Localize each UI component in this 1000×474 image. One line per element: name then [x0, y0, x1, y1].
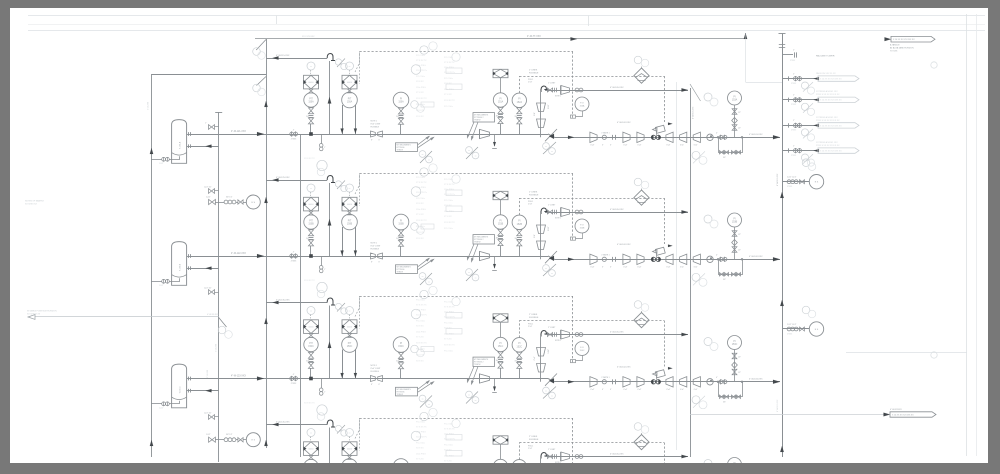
faint right line y=353	[846, 352, 967, 354]
drain wye on main train B	[321, 256, 323, 266]
ghost bubble above gauge train D	[411, 431, 421, 441]
svg-text:PIT: PIT	[348, 343, 352, 345]
svg-text:1-1/2" 1/2": 1-1/2" 1/2"	[204, 187, 212, 189]
header branch at y=99.8	[782, 99, 818, 101]
svg-text:2"-W-XXX: 2"-W-XXX	[207, 369, 209, 378]
header branch at y=78.6	[782, 78, 818, 80]
gauge PI-153D	[728, 458, 742, 472]
svg-text:4"-W-105-XXX: 4"-W-105-XXX	[610, 454, 624, 456]
discharge gauge stack train C	[734, 350, 736, 382]
valve stack C1 train C	[498, 352, 503, 355]
svg-text:xx: xx	[551, 151, 553, 153]
svg-text:150x PSIG: 150x PSIG	[416, 310, 426, 312]
riser isolation valve y=417	[209, 415, 212, 420]
svg-text:1-1/2": 1-1/2"	[548, 349, 550, 354]
seal line valve train D	[547, 455, 550, 459]
transmitter PIT-150BA	[304, 215, 318, 229]
svg-text:TRIM W: TRIM W	[474, 241, 481, 243]
valve stack C1 train A	[498, 107, 503, 110]
strainer box A train C	[304, 320, 319, 334]
vessel T-150A dished head line	[172, 153, 187, 156]
svg-text:TRIM W: TRIM W	[474, 119, 481, 121]
svg-text:PI: PI	[400, 98, 403, 100]
svg-text:XT X.XX: XT X.XX	[416, 214, 424, 216]
signal arrow small train A	[668, 123, 673, 126]
svg-text:2" JOINT: 2" JOINT	[548, 205, 556, 207]
ghost flag branch y=125.4	[803, 129, 813, 139]
seal flush hook train C	[541, 331, 548, 337]
svg-text:2-1/2" 1-1/2": 2-1/2" 1-1/2"	[787, 177, 797, 179]
relief diamond PSV train C	[634, 313, 649, 328]
sample pot circle lower	[246, 433, 260, 447]
svg-text:XT 8 XX TX: XT 8 XX TX	[444, 307, 455, 309]
spectacle blind train C	[290, 377, 294, 381]
svg-text:153C: 153C	[732, 344, 738, 346]
wire minimum-flow feed line train A	[266, 58, 327, 60]
svg-text:4"-W-135-XXX: 4"-W-135-XXX	[276, 300, 290, 302]
svg-text:X 14 XX XX XX XXX XX: X 14 XX XX XX XXX XX	[820, 151, 842, 153]
svg-text:NOTE 1: NOTE 1	[555, 218, 561, 220]
ghost bubble pair beside gauge train D	[411, 467, 419, 474]
wire minimum-flow feed line train D	[266, 424, 327, 426]
top-right off-page connector pill	[891, 36, 935, 42]
svg-text:2-1/2" 1-1/2": 2-1/2" 1-1/2"	[787, 324, 797, 326]
hose hook connector train B	[327, 176, 335, 183]
riser reducer lower train C	[537, 364, 546, 373]
vessel T-150A shell	[172, 120, 187, 164]
ghost bubbles mid column train B	[420, 168, 428, 176]
svg-text:XX 8 XX: XX 8 XX	[416, 361, 424, 363]
transmitter PIT-150AB	[342, 92, 358, 108]
svg-text:NOTE 1: NOTE 1	[555, 340, 561, 342]
svg-text:152C: 152C	[517, 346, 523, 348]
svg-text:4"-W-105-XXX: 4"-W-105-XXX	[610, 209, 624, 211]
ball valve with actuator train C	[651, 380, 655, 384]
ghost flag right of discharge train B	[704, 215, 712, 223]
svg-text:150C: 150C	[308, 346, 314, 348]
valve stack C2 train B	[517, 230, 522, 233]
filter box C train D	[493, 436, 508, 444]
wire main process line train A left span	[191, 134, 548, 136]
flow arrow into header train B	[773, 257, 780, 261]
drain stub below main train C	[494, 379, 496, 391]
riser reducer upper train B	[537, 225, 546, 234]
svg-text:1/2": 1/2"	[738, 112, 741, 114]
svg-text:XX 8 XX TX: XX 8 XX TX	[304, 402, 315, 404]
flow arrow after jog train A	[568, 136, 574, 139]
hose hook connector train C	[327, 298, 335, 305]
svg-text:4"-W-103-XXX: 4"-W-103-XXX	[749, 378, 763, 380]
svg-text:150A: 150A	[347, 101, 353, 104]
ghost flag after jog train B	[543, 264, 556, 276]
sample pot circle upper	[246, 195, 260, 209]
svg-text:PI: PI	[400, 343, 403, 345]
leader arrows note A train C	[418, 381, 429, 389]
inner frame right rule 2	[976, 14, 978, 456]
wire top distribution line y=39	[255, 38, 746, 40]
svg-text:E S: E S	[252, 440, 256, 442]
wire discharge riser x=690	[690, 88, 692, 457]
flow orifice circle F.O. train A	[575, 97, 589, 111]
svg-text:XX-X.XX Px: XX-X.XX Px	[416, 315, 427, 317]
svg-text:150x PSIG: 150x PSIG	[416, 454, 426, 456]
check valve ball train C	[707, 379, 713, 385]
svg-text:xx: xx	[468, 394, 470, 396]
ghost bubbles above diamond train A	[634, 56, 642, 64]
bottom-right connector arrow	[884, 413, 891, 417]
svg-text:1-1/2": 1-1/2"	[206, 197, 211, 199]
svg-text:FLEXIBLE: FLEXIBLE	[529, 72, 539, 74]
svg-text:3/4" 1/2": 3/4" 1/2"	[226, 197, 233, 199]
svg-text:F.O: F.O	[580, 102, 584, 104]
ghost revision cloud train A	[317, 160, 327, 170]
svg-text:2"x1": 2"x1"	[534, 356, 536, 360]
drain wye on main train C	[321, 379, 323, 389]
svg-text:3/4": 3/4"	[496, 116, 499, 118]
ghost flag below discharge train B	[693, 273, 705, 285]
svg-text:1/2": 1/2"	[738, 250, 741, 252]
gauge valve stack train A	[398, 108, 403, 111]
seal line couple circles train D	[575, 455, 579, 459]
svg-text:4"-W-101-XXX: 4"-W-101-XXX	[749, 134, 763, 136]
svg-text:xx: xx	[551, 273, 553, 275]
svg-text:2"x1": 2"x1"	[534, 234, 536, 238]
flow arrow seal line train C	[682, 333, 689, 337]
svg-text:XX 8 XX: XX 8 XX	[416, 116, 424, 118]
bypass loop train C	[719, 382, 743, 397]
svg-text:A TANGLE: A TANGLE	[890, 44, 900, 47]
svg-text:8"x6" JOINT: 8"x6" JOINT	[371, 123, 382, 125]
svg-text:150B: 150B	[308, 224, 314, 226]
diffuser cone on main train B	[480, 251, 490, 260]
seal flush hook train D	[541, 453, 548, 459]
svg-text:PI: PI	[733, 341, 736, 343]
svg-text:PI: PI	[499, 343, 502, 345]
svg-text:xx: xx	[428, 281, 430, 283]
strainer box A train B	[304, 197, 319, 211]
line node A train B	[309, 254, 313, 258]
svg-text:xx: xx	[428, 404, 430, 406]
svg-text:150A: 150A	[308, 101, 314, 104]
wire drain riser x=300	[300, 134, 302, 457]
flow arrow branch y=150.6	[814, 149, 820, 152]
svg-text:TRIM W: TRIM W	[397, 149, 404, 151]
svg-text:PAVILION XXX XL XX: PAVILION XXX XL XX	[816, 72, 836, 75]
svg-text:6"x4": 6"x4"	[694, 267, 698, 269]
transmitter PIT-150AA	[304, 93, 318, 107]
twin drop pipes train C	[342, 350, 344, 379]
ghost flag below main A train B	[420, 273, 432, 285]
flow arrow up feed riser train A	[328, 97, 332, 104]
svg-text:W TANKS POINTS AT HORIZON: W TANKS POINTS AT HORIZON	[27, 310, 57, 313]
transmitter PI-152B	[512, 215, 526, 229]
svg-text:6"x4": 6"x4"	[667, 145, 671, 147]
vessel T-150B lower nozzle branch	[187, 268, 191, 270]
main line slope jog train C	[548, 379, 555, 382]
flow arrow branch y=99.8	[814, 98, 820, 101]
seal line valve train B	[547, 210, 550, 214]
vessel T-150A outlet nozzle flanges	[187, 134, 191, 136]
wire riser from feed hook to main train B	[329, 183, 331, 256]
svg-text:PCL 150x: PCL 150x	[416, 349, 425, 351]
svg-text:1/2": 1/2"	[738, 357, 741, 359]
dashed instrument boundary 1 train B	[360, 173, 574, 175]
flow arrow main line train C	[257, 377, 264, 381]
signal dashed from strainer B train A	[355, 52, 360, 73]
twin drop pipes train A	[342, 105, 344, 134]
wire minimum-flow feed line train B	[266, 180, 327, 182]
wire main process line train C right span	[555, 381, 781, 383]
svg-text:XX 8 XX TX: XX 8 XX TX	[444, 345, 455, 347]
flow arrow into header train C	[773, 380, 780, 384]
svg-text:PCL 150x: PCL 150x	[416, 443, 425, 445]
transmitter PI-151D	[493, 459, 507, 473]
ghost bubbles mid column train D	[420, 412, 428, 420]
reducer chain train C	[590, 377, 597, 387]
leader arrows note A train A	[418, 136, 429, 144]
strainer box B train C	[342, 320, 357, 334]
svg-text:153A: 153A	[732, 99, 738, 102]
svg-text:XXTRESS A NXWL 1XX: XXTRESS A NXWL 1XX	[816, 116, 838, 119]
drain valve at vessel C bottom	[162, 402, 166, 406]
dashed instrument boundary 1 train A	[360, 51, 574, 53]
svg-text:PCL 150x: PCL 150x	[416, 76, 425, 78]
ghost flag right of discharge train C	[704, 338, 712, 346]
svg-text:XX-X.XX: XX-X.XX	[416, 232, 425, 234]
svg-text:1-1/2": 1-1/2"	[548, 226, 550, 231]
svg-text:xx: xx	[310, 310, 312, 312]
discharge flanges train A	[719, 135, 723, 139]
svg-text:xx: xx	[475, 277, 477, 279]
svg-text:1/2": 1/2"	[738, 372, 741, 374]
svg-text:ZTXXX: ZTXXX	[291, 139, 297, 141]
svg-text:150x PSIG: 150x PSIG	[416, 209, 426, 211]
svg-text:X 14 XX XX XX XXX XX: X 14 XX XX XX XXX XX	[892, 415, 914, 417]
header vent tee branch	[782, 54, 793, 56]
flow arrow after jog train B	[568, 258, 574, 261]
svg-text:XX 8 XX TX: XX 8 XX TX	[444, 100, 455, 102]
isolation valve stack A train B	[308, 230, 313, 233]
strainer box A train D	[304, 442, 319, 456]
riser reducer lower train B	[537, 241, 546, 250]
flow arrow on top line	[571, 37, 578, 41]
svg-text:xx: xx	[310, 432, 312, 434]
flow arrow on riser x=266 a	[264, 197, 267, 203]
svg-text:XX 8 XX TX: XX 8 XX TX	[444, 222, 455, 224]
flexible coupling on main train A	[371, 131, 376, 137]
svg-text:XT X.XX: XT X.XX	[444, 216, 452, 218]
svg-text:150B: 150B	[347, 224, 353, 226]
svg-text:PI: PI	[499, 98, 502, 100]
svg-text:XT 8 XX TX: XT 8 XX TX	[416, 182, 427, 184]
bypass loop train A	[719, 137, 743, 152]
svg-text:151C: 151C	[498, 346, 504, 348]
svg-text:3/4" 1/2": 3/4" 1/2"	[226, 434, 233, 436]
flow arrow up on header b	[780, 300, 784, 306]
leader arrows note A train B	[418, 258, 429, 266]
svg-text:6"x4": 6"x4"	[638, 145, 642, 147]
svg-text:X 14 XX XX XX XXX XX: X 14 XX XX XX XXX XX	[893, 39, 915, 41]
seal line valve train C	[547, 333, 550, 337]
wire main collection header x=782	[782, 34, 784, 458]
svg-text:XT 8 XX TX: XT 8 XX TX	[444, 429, 455, 431]
discharge flanges train B	[719, 257, 723, 261]
wire collection riser x=266	[266, 39, 268, 448]
svg-text:4"-W-XXXXX: 4"-W-XXXXX	[890, 409, 902, 411]
off-page connector pill y=125.4	[818, 123, 859, 128]
svg-text:PCL 150x: PCL 150x	[444, 57, 453, 59]
svg-text:XT X.XX: XT X.XX	[444, 94, 452, 96]
note box A train B	[396, 265, 418, 274]
bottom-right off-page connector pill	[890, 412, 936, 417]
svg-text:PCL 150x: PCL 150x	[416, 321, 425, 323]
svg-text:4"-W-122-XXX: 4"-W-122-XXX	[231, 253, 246, 255]
binder hole bottom	[931, 352, 937, 358]
svg-text:6"x4": 6"x4"	[591, 389, 595, 391]
vessel T-150B dished head line	[172, 275, 187, 278]
svg-text:1-1/2": 1-1/2"	[159, 407, 164, 409]
slash flag pair near top of riser x=266 lower	[257, 77, 267, 86]
svg-text:3/4": 3/4"	[515, 360, 518, 362]
discharge flanges train C	[719, 380, 723, 384]
flow arrow up feed riser train B	[328, 219, 332, 226]
wire to bottom-right off-page connector	[690, 414, 884, 416]
sample pot on header y=181.7	[809, 175, 823, 189]
svg-text:T-150-A: T-150-A	[178, 141, 181, 149]
svg-text:1-1/2" 1/2": 1-1/2" 1/2"	[204, 413, 212, 415]
discharge gauge stack train B	[734, 227, 736, 259]
drain wye on main train A	[321, 134, 323, 144]
svg-text:FLEXIBLE: FLEXIBLE	[371, 248, 380, 250]
line node A train C	[309, 377, 313, 381]
svg-text:3/4": 3/4"	[515, 116, 518, 118]
svg-text:4"-W-102-XXX: 4"-W-102-XXX	[617, 244, 631, 246]
seal line couple circles train A	[575, 88, 579, 92]
wire seal riser down train D	[540, 459, 542, 474]
svg-text:xx: xx	[349, 188, 351, 190]
signal dashed box 2 train C	[519, 321, 521, 338]
svg-text:XX-X.XX Px: XX-X.XX Px	[416, 70, 427, 72]
svg-text:PIT: PIT	[348, 98, 352, 100]
note box B train A	[473, 113, 495, 122]
discharge gauge stack train A	[734, 105, 736, 137]
svg-text:xx: xx	[349, 66, 351, 68]
svg-text:xx: xx	[422, 398, 424, 400]
flow arrow main line train B	[257, 254, 264, 258]
vessel T-150C shell	[172, 364, 187, 408]
svg-text:4"-W-123-XXX: 4"-W-123-XXX	[231, 375, 246, 377]
svg-text:6"x4": 6"x4"	[680, 267, 684, 269]
svg-text:XX 8 XX: XX 8 XX	[416, 448, 424, 450]
ghost bubble above gauge train B	[411, 187, 421, 197]
svg-text:X 14 XX XX XX XXX XX: X 14 XX XX XX XXX XX	[820, 79, 842, 81]
check circle small train C	[602, 380, 606, 384]
svg-text:2"x3": 2"x3"	[528, 204, 533, 206]
svg-text:2"x3": 2"x3"	[528, 82, 533, 84]
svg-text:XX 8 XX TX: XX 8 XX TX	[416, 220, 427, 222]
svg-text:2" JOINT: 2" JOINT	[548, 449, 556, 451]
relief diamond PSV train B	[634, 190, 649, 205]
svg-text:6"x4": 6"x4"	[624, 145, 628, 147]
svg-text:E S: E S	[815, 329, 819, 331]
svg-text:XT X.XX: XT X.XX	[444, 461, 452, 463]
svg-text:X 14 XX XX XX XXX XX: X 14 XX XX XX XXX XX	[820, 100, 842, 102]
seal flush hook train A	[541, 86, 548, 92]
ghost flag below main B train A	[466, 147, 478, 159]
svg-text:150C: 150C	[347, 346, 353, 348]
vessel T-150B shell	[172, 242, 187, 286]
flow arrow into header train A	[773, 135, 780, 139]
top-right off-page connector arrow	[885, 37, 892, 41]
svg-text:4"-W-145-XXX: 4"-W-145-XXX	[276, 422, 290, 424]
wire main process line train B left span	[191, 256, 548, 258]
flow arrow into riser train A	[273, 56, 279, 59]
signal dashed from strainer B train C	[355, 296, 360, 317]
twin drop pipes train D	[342, 472, 344, 474]
svg-text:NOTE 1: NOTE 1	[371, 365, 378, 367]
svg-text:TO XXX: TO XXX	[890, 51, 898, 53]
svg-text:XT 8 XX TX: XT 8 XX TX	[444, 184, 455, 186]
title strip lower rule	[28, 30, 985, 32]
filter box C train A	[493, 69, 508, 77]
svg-text:XT 8 XX TX: XT 8 XX TX	[444, 62, 455, 64]
svg-text:FLEXIBLE: FLEXIBLE	[529, 194, 539, 196]
ghost bubble pair beside gauge train A	[411, 101, 419, 109]
svg-text:NOTE 1: NOTE 1	[555, 96, 561, 98]
wire minimum-flow feed line train C	[266, 302, 327, 304]
svg-text:3/4": 3/4"	[396, 116, 399, 118]
svg-text:xx: xx	[349, 432, 351, 434]
svg-text:3/4": 3/4"	[723, 401, 726, 403]
svg-text:2" JOINT: 2" JOINT	[548, 327, 556, 329]
svg-text:3/4": 3/4"	[723, 157, 726, 159]
strainer box B train D	[342, 442, 357, 456]
off-page connector pill y=150.6	[818, 148, 859, 153]
ghost flag branch y=150.6	[803, 154, 813, 164]
svg-text:XT X.XX: XT X.XX	[416, 337, 424, 339]
header top flange pair	[779, 44, 785, 46]
seal line horn train A	[561, 86, 570, 95]
riser reducer upper train C	[537, 348, 546, 357]
transmitter PI-151B	[493, 215, 507, 229]
svg-text:E S: E S	[252, 202, 256, 204]
seal line horn train B	[561, 208, 570, 217]
transmitter PI-151C	[493, 337, 507, 351]
riser reducer lower train A	[537, 119, 546, 128]
off-page connector pill y=78.6	[818, 76, 859, 81]
svg-text:2" JOINT: 2" JOINT	[548, 83, 556, 85]
svg-text:150A: 150A	[398, 101, 404, 104]
ghost flag near hook train B	[337, 181, 345, 190]
svg-text:PXXX 4 XX XX XX 8 X XX: PXXX 4 XX XX XX 8 X XX	[816, 120, 840, 122]
ball valve with actuator train A	[651, 135, 655, 139]
note box A train A	[396, 143, 418, 152]
spectacle blind train A	[290, 132, 294, 136]
vessel T-150C lower nozzle branch	[187, 390, 191, 392]
strainer box B train A	[342, 75, 357, 89]
twin drop pipes train B	[342, 227, 344, 256]
flow arrow into riser train B	[273, 178, 279, 181]
svg-text:4"-W-125-XXX: 4"-W-125-XXX	[276, 177, 290, 179]
dashed instrument boundary 1 train C	[360, 296, 574, 298]
gauge PI-153A	[728, 91, 742, 105]
flow arrow up on left riser	[150, 148, 153, 154]
wire seal flush line train B	[545, 212, 688, 214]
leader arrows note B train C	[468, 367, 475, 382]
gauge PI-150C	[393, 337, 409, 353]
svg-text:X 14 XX XX XX XXX XX: X 14 XX XX XX XXX XX	[820, 125, 842, 127]
diffuser cone on main train A	[480, 129, 490, 138]
